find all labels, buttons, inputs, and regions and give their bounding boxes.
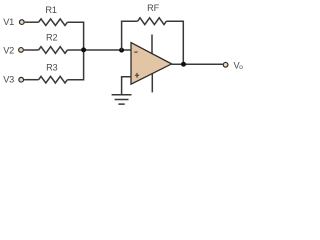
svg-text:V2: V2 <box>3 46 14 56</box>
svg-text:RF: RF <box>147 3 159 13</box>
wire: op-amp output to Vo terminal <box>172 63 223 65</box>
wire: V3 to R3 lead <box>24 79 38 81</box>
wire: R1 to inverting node (right then down) <box>67 22 83 50</box>
svg-text:R3: R3 <box>46 62 57 72</box>
svg-text:V1: V1 <box>3 17 14 27</box>
resistor R2 <box>39 33 68 54</box>
svg-text:R2: R2 <box>46 33 57 43</box>
resistor RF <box>138 3 167 25</box>
wire: R3 up to inverting node <box>67 50 83 80</box>
wire: RF feedback branch (up, across, down to output) <box>122 21 184 64</box>
terminal Vo <box>223 60 243 71</box>
wire: V1 to R1 lead <box>25 21 39 23</box>
terminal V2 <box>3 46 23 56</box>
svg-text:o: o <box>239 64 243 71</box>
wire: R2 to op-amp inverting input <box>67 49 131 51</box>
node junction at summing point (R1,R2,R3) <box>81 47 86 52</box>
svg-text:R1: R1 <box>45 5 56 15</box>
resistor R3 <box>39 62 68 83</box>
node junction at output / RF return <box>181 62 186 67</box>
terminal V3 <box>3 74 23 84</box>
op-amp U1 <box>131 35 172 93</box>
ground <box>112 95 132 104</box>
terminal V1 <box>3 17 24 27</box>
wire: V2 to R2 lead <box>24 49 39 51</box>
wire: non-inverting input to ground <box>122 77 132 95</box>
resistor R1 <box>39 5 68 25</box>
svg-text:V3: V3 <box>3 74 14 84</box>
node junction at inverting input / RF tap <box>119 48 124 53</box>
